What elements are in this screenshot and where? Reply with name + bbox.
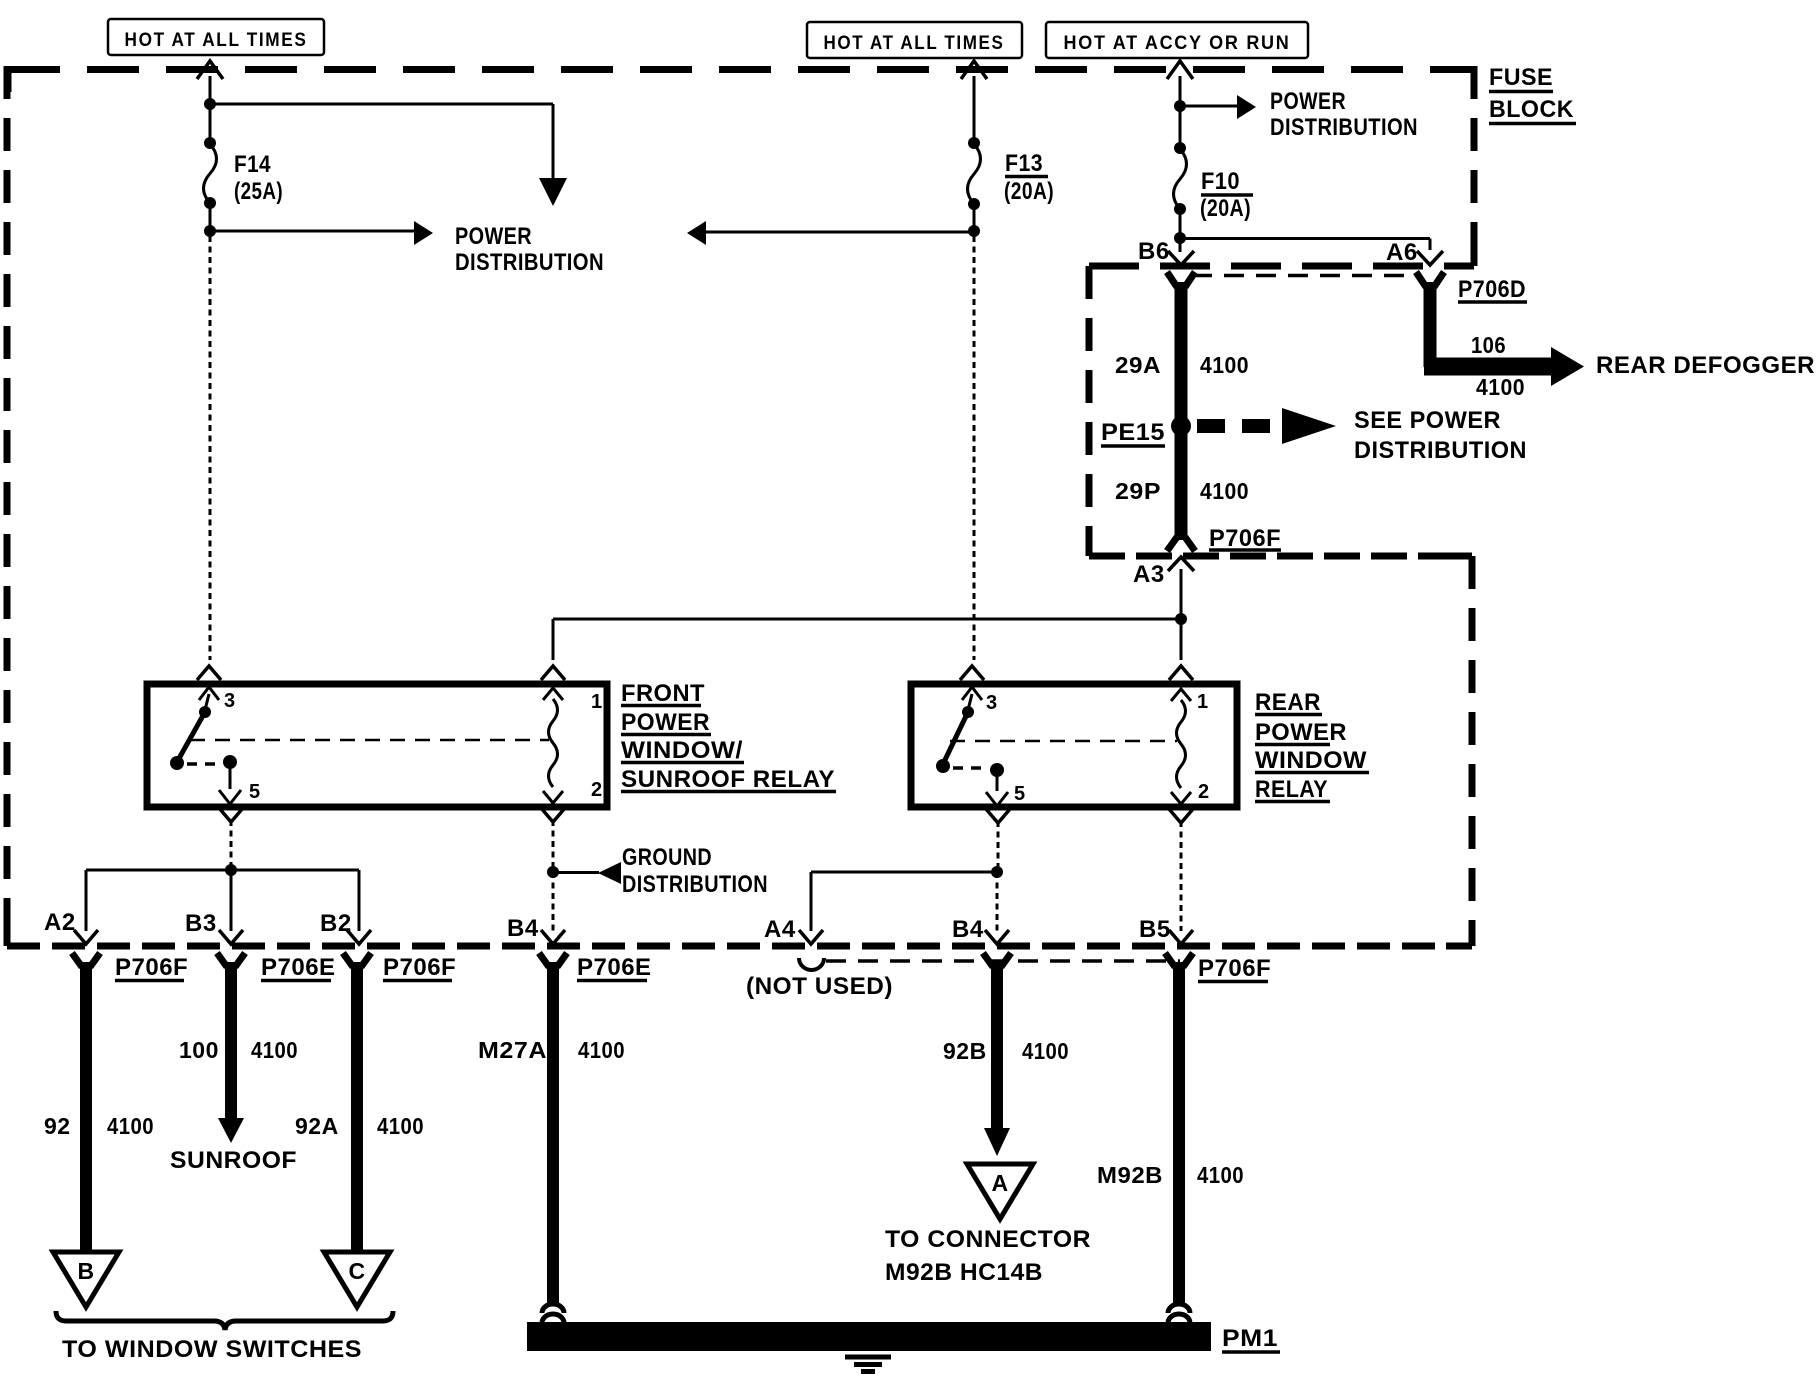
- svg-text:A2: A2: [44, 909, 76, 936]
- svg-text:FRONT: FRONT: [621, 680, 705, 707]
- wire B6 to A6: [1180, 239, 1430, 251]
- relay front coil winding: [549, 699, 558, 787]
- fuse block dashed border top: [8, 66, 1474, 73]
- fuse block label: [1489, 64, 1576, 124]
- arrow B2 into connector: [347, 930, 371, 944]
- wire relay coil feed horizontal: [553, 618, 1181, 621]
- svg-text:P706F: P706F: [1209, 525, 1281, 552]
- relay box rear power window relay: [911, 684, 1237, 807]
- connector triangle C: [324, 1252, 390, 1307]
- svg-text:BLOCK: BLOCK: [1489, 96, 1574, 123]
- eyelet terminal B5: [1168, 1304, 1190, 1323]
- svg-text:RELAY: RELAY: [1255, 776, 1328, 803]
- junction dot F14 top: [204, 98, 216, 110]
- svg-text:WINDOW/: WINDOW/: [621, 737, 743, 764]
- relay rear inner mechanical dashed link: [950, 740, 1177, 743]
- svg-text:C: C: [348, 1258, 365, 1284]
- wire rear defogger feed horizontal: [1424, 358, 1552, 376]
- wire drop to B4 rear: [996, 872, 999, 931]
- junction dot ground distribution rear: [991, 866, 1003, 878]
- svg-text:HOT AT ALL TIMES: HOT AT ALL TIMES: [125, 30, 308, 51]
- brace to window switches: [56, 1311, 393, 1330]
- eyelet terminal B4: [542, 1304, 564, 1323]
- svg-text:F14: F14: [234, 151, 271, 178]
- svg-text:1: 1: [1197, 691, 1208, 713]
- relay front switch arm end dot: [170, 756, 184, 770]
- arrow A2 into connector: [74, 930, 98, 944]
- thick wire B2 to window switches: [351, 962, 363, 1253]
- fuse block dashed border right: [1471, 66, 1478, 266]
- svg-text:29P: 29P: [1115, 478, 1161, 504]
- thick wire 92B connector Y: [983, 953, 1011, 967]
- svg-text:4100: 4100: [107, 1113, 154, 1139]
- svg-text:SUNROOF RELAY: SUNROOF RELAY: [621, 766, 835, 793]
- relay front pin 5 contact dot: [223, 755, 237, 769]
- arrowhead to connector A: [984, 1128, 1010, 1156]
- wire rear relay pin 1 drop: [1180, 619, 1183, 660]
- svg-text:POWER: POWER: [1270, 88, 1346, 115]
- connector chevron below rear relay pin 2: [1169, 809, 1193, 823]
- svg-text:DISTRIBUTION: DISTRIBUTION: [1354, 437, 1527, 464]
- connector triangle A: [967, 1164, 1033, 1219]
- svg-text:TO WINDOW SWITCHES: TO WINDOW SWITCHES: [62, 1336, 362, 1363]
- wire dashed feed to see power distribution: [1197, 419, 1280, 433]
- svg-text:29A: 29A: [1115, 352, 1161, 378]
- wire F14 below fuse: [209, 203, 212, 233]
- relay front switch arm: [177, 712, 205, 762]
- junction dot F10 top: [1174, 100, 1186, 112]
- svg-text:(20A): (20A): [1004, 178, 1054, 205]
- svg-text:F13: F13: [1005, 150, 1043, 177]
- thick wire A6 P706D connector Y top: [1416, 272, 1444, 287]
- svg-text:4100: 4100: [1200, 352, 1249, 378]
- wire 29P thick: [1175, 426, 1188, 540]
- svg-text:WINDOW: WINDOW: [1255, 747, 1367, 774]
- svg-text:4100: 4100: [1200, 478, 1249, 504]
- thick wire B3 connector Y: [217, 953, 245, 967]
- thick wire B2 connector Y: [343, 953, 371, 967]
- wire hot feed arrow F13: [961, 61, 987, 79]
- relay rear pin 3 arrow: [962, 687, 982, 710]
- svg-text:B4: B4: [952, 916, 984, 943]
- junction dot F13: [968, 225, 980, 237]
- border corner stubs: [7, 66, 1474, 946]
- svg-text:2: 2: [1198, 781, 1209, 803]
- connector chevron above rear relay pin 1: [1169, 666, 1193, 680]
- arrow A6 into connector: [1417, 251, 1443, 265]
- svg-text:A: A: [991, 1170, 1008, 1196]
- fuse F10 terminal dots: [1174, 142, 1186, 154]
- label box HOT AT ALL TIMES center: [807, 22, 1022, 58]
- svg-text:P706F: P706F: [115, 954, 188, 981]
- wire drop to B3: [230, 870, 233, 931]
- fuse F13: [968, 144, 981, 204]
- wire hot feed arrow F14: [197, 61, 223, 79]
- svg-text:A4: A4: [764, 916, 796, 943]
- junction dot A3: [1175, 613, 1187, 625]
- arrowhead sunroof: [218, 1118, 244, 1143]
- empty cavity cup A4: [799, 958, 824, 970]
- svg-text:A6: A6: [1386, 239, 1418, 266]
- svg-text:3: 3: [986, 692, 997, 714]
- relay rear switch dashed throw: [953, 766, 988, 770]
- svg-text:4100: 4100: [377, 1113, 424, 1139]
- wire F14 to front relay pin 3: [209, 236, 212, 660]
- svg-text:92: 92: [44, 1113, 71, 1139]
- fuse block dashed border left: [4, 66, 11, 946]
- arrowhead see power distribution: [1282, 408, 1336, 444]
- svg-text:PM1: PM1: [1222, 1325, 1278, 1352]
- thick wire A2 connector Y: [72, 953, 100, 967]
- svg-text:POWER: POWER: [455, 223, 532, 250]
- thick wire 92B to connector A: [991, 962, 1003, 1130]
- relay rear pin 5 stem and arrow: [986, 770, 1008, 806]
- arrow B5 into connector: [1169, 930, 1193, 944]
- relay front inner mechanical dashed link: [190, 739, 549, 742]
- wire power distribution arrow from F13: [706, 231, 974, 234]
- connector notch dashed top: [1089, 263, 1474, 270]
- wire rear pin 2 to B5: [1180, 821, 1183, 931]
- svg-text:POWER: POWER: [1255, 719, 1347, 746]
- wire stub to ground distribution: [553, 871, 599, 874]
- wire F14 top: [209, 76, 212, 143]
- svg-text:F10: F10: [1201, 168, 1240, 195]
- svg-text:P706F: P706F: [383, 954, 456, 981]
- svg-text:SEE POWER: SEE POWER: [1354, 407, 1501, 434]
- relay front coil arrows: [543, 688, 563, 803]
- arrowhead from ground distribution: [598, 862, 621, 884]
- wire power distribution branch left: [210, 230, 414, 233]
- relay rear coil winding: [1177, 700, 1186, 788]
- arrow B4 into connector: [541, 930, 565, 944]
- junction dot window switch feed: [225, 864, 237, 876]
- node PE15 junction dot: [1171, 416, 1191, 436]
- thick wire B5 ground lead: [1173, 962, 1185, 1305]
- wire drop to B4: [552, 872, 555, 931]
- connector mating dashed line bottom row: [826, 959, 1180, 963]
- junction dot B6: [1174, 232, 1186, 244]
- svg-text:4100: 4100: [251, 1037, 298, 1063]
- wire rear defogger feed vertical: [1424, 282, 1437, 367]
- arrow A3 from connector: [1168, 557, 1194, 571]
- fuse F14: [204, 144, 217, 203]
- relay box front power window sunroof relay: [147, 684, 607, 807]
- fuse F13 terminal dots: [968, 137, 980, 149]
- thick wire 29A connector Y top: [1167, 272, 1195, 287]
- ground bus PM1: [527, 1322, 1211, 1351]
- wire F13 top: [973, 76, 976, 143]
- connector chevron above front relay pin 3: [197, 666, 221, 680]
- svg-text:B: B: [77, 1258, 94, 1284]
- svg-text:1: 1: [591, 691, 602, 713]
- fuse F10: [1174, 149, 1187, 209]
- connector notch dashed left: [1086, 266, 1093, 556]
- svg-text:SUNROOF: SUNROOF: [170, 1147, 297, 1174]
- wire front relay pin 1 drop: [552, 619, 555, 660]
- svg-text:P706E: P706E: [261, 954, 336, 981]
- arrowhead left power distribution from F13: [687, 221, 706, 245]
- connector triangle B: [53, 1252, 119, 1307]
- connector notch dashed bottom P706F: [1089, 553, 1472, 560]
- svg-text:(20A): (20A): [1200, 195, 1251, 222]
- svg-text:M92B HC14B: M92B HC14B: [885, 1259, 1043, 1286]
- svg-text:4100: 4100: [1476, 374, 1525, 400]
- wire power distribution branch right: [1180, 105, 1237, 108]
- svg-text:P706D: P706D: [1458, 276, 1526, 303]
- wire window switch bus horizontal: [86, 869, 359, 872]
- arrow B3 into connector: [219, 930, 243, 944]
- arrowhead right power distribution top right: [1237, 95, 1256, 119]
- svg-text:4100: 4100: [1197, 1162, 1244, 1188]
- thick wire B5 connector Y: [1165, 953, 1193, 967]
- svg-text:B2: B2: [320, 910, 352, 937]
- relay rear switch pivot dot: [962, 706, 974, 718]
- relay rear coil arrows: [1171, 689, 1191, 804]
- svg-text:POWER: POWER: [621, 709, 710, 736]
- svg-text:TO CONNECTOR: TO CONNECTOR: [885, 1226, 1091, 1253]
- svg-text:B5: B5: [1139, 916, 1171, 943]
- wire rear pin 5 to ground junction: [997, 821, 1000, 872]
- svg-text:PE15: PE15: [1101, 419, 1165, 446]
- ground symbol: [845, 1357, 891, 1372]
- thick wire B4 connector Y: [539, 953, 567, 967]
- label box HOT AT ALL TIMES left: [108, 19, 324, 55]
- wire F13 to rear relay pin 3: [973, 236, 976, 660]
- dashed border right lower: [1469, 556, 1476, 946]
- wire hot feed arrow F10: [1167, 61, 1193, 79]
- svg-text:HOT AT ACCY OR RUN: HOT AT ACCY OR RUN: [1064, 33, 1291, 54]
- relay front pin 3 arrow: [199, 687, 219, 710]
- wire 29P connector Y bottom: [1167, 537, 1195, 551]
- svg-text:106: 106: [1471, 332, 1506, 358]
- svg-text:DISTRIBUTION: DISTRIBUTION: [1270, 114, 1418, 141]
- wire F10 below fuse: [1179, 209, 1182, 252]
- svg-text:5: 5: [1014, 783, 1025, 805]
- svg-text:3: 3: [224, 690, 235, 712]
- wire front pin 2 to ground junction: [552, 820, 555, 872]
- arrowhead rear defogger: [1551, 347, 1584, 386]
- svg-text:P706F: P706F: [1198, 955, 1271, 982]
- svg-text:100: 100: [179, 1037, 219, 1063]
- junction dot ground distribution front: [547, 866, 559, 878]
- relay front switch dashed throw: [187, 762, 221, 766]
- svg-text:4100: 4100: [1022, 1038, 1069, 1064]
- svg-text:B4: B4: [507, 915, 539, 942]
- wire drop to A4: [810, 872, 813, 931]
- wire A3 down: [1180, 569, 1183, 619]
- connector chevron below front relay pin 2: [541, 808, 565, 822]
- arrow B4 rear into connector: [985, 930, 1009, 944]
- junction dot F14 bottom: [204, 225, 216, 237]
- svg-text:(25A): (25A): [234, 178, 283, 205]
- svg-text:HOT AT ALL TIMES: HOT AT ALL TIMES: [824, 33, 1005, 54]
- label box HOT AT ACCY OR RUN: [1046, 22, 1308, 58]
- wire 29A thick: [1175, 282, 1188, 426]
- svg-text:4100: 4100: [578, 1037, 625, 1063]
- wire drop to B2: [358, 870, 361, 931]
- arrow B6 into connector: [1168, 251, 1194, 265]
- svg-text:B6: B6: [1138, 238, 1170, 265]
- arrow A4 into connector: [799, 930, 823, 944]
- dashed border bottom: [7, 943, 1472, 950]
- connector chevron above front relay pin 1: [541, 666, 565, 680]
- thick wire B3 sunroof feed: [225, 962, 237, 1120]
- wire front pin 5 to ground junction: [230, 820, 233, 870]
- thick wire B4 ground lead: [547, 962, 559, 1305]
- relay front pin 5 stem and arrow: [219, 762, 241, 804]
- svg-text:FUSE: FUSE: [1489, 64, 1553, 91]
- svg-text:P706E: P706E: [577, 954, 652, 981]
- connector chevron below rear relay pin 5: [986, 809, 1010, 823]
- arrowhead down to power distribution: [539, 178, 567, 206]
- svg-text:5: 5: [249, 781, 260, 803]
- svg-text:A3: A3: [1133, 561, 1165, 588]
- relay rear switch arm end dot: [936, 759, 950, 773]
- svg-text:92B: 92B: [943, 1038, 987, 1064]
- relay front switch pivot dot: [199, 706, 211, 718]
- svg-text:M92B: M92B: [1097, 1162, 1163, 1188]
- svg-text:REAR DEFOGGER: REAR DEFOGGER: [1596, 352, 1815, 379]
- arrowhead right power distribution left: [414, 221, 433, 245]
- svg-text:REAR: REAR: [1255, 689, 1321, 716]
- svg-text:92A: 92A: [295, 1113, 339, 1139]
- wire drop to A2: [85, 870, 88, 931]
- svg-text:M27A: M27A: [478, 1037, 547, 1063]
- wire rear ground bus horizontal: [811, 871, 997, 874]
- svg-text:DISTRIBUTION: DISTRIBUTION: [455, 249, 604, 276]
- svg-text:DISTRIBUTION: DISTRIBUTION: [622, 871, 768, 898]
- svg-text:B3: B3: [185, 910, 217, 937]
- svg-text:2: 2: [591, 779, 602, 801]
- thick wire A2 to window switches: [80, 962, 92, 1253]
- relay rear pin 5 contact dot: [990, 763, 1004, 777]
- svg-text:(NOT USED): (NOT USED): [746, 973, 893, 1000]
- connector chevron below front relay pin 5: [219, 808, 243, 822]
- wire F10 top: [1179, 76, 1182, 148]
- wire F13 below fuse: [973, 204, 976, 236]
- wire top distribution branch: [210, 104, 553, 180]
- fuse F14 terminal dots: [204, 137, 216, 149]
- relay rear switch arm: [943, 712, 968, 764]
- connector chevron above rear relay pin 3: [960, 666, 984, 680]
- svg-text:GROUND: GROUND: [622, 844, 712, 871]
- connector P706D mating dashed line: [1192, 274, 1416, 278]
